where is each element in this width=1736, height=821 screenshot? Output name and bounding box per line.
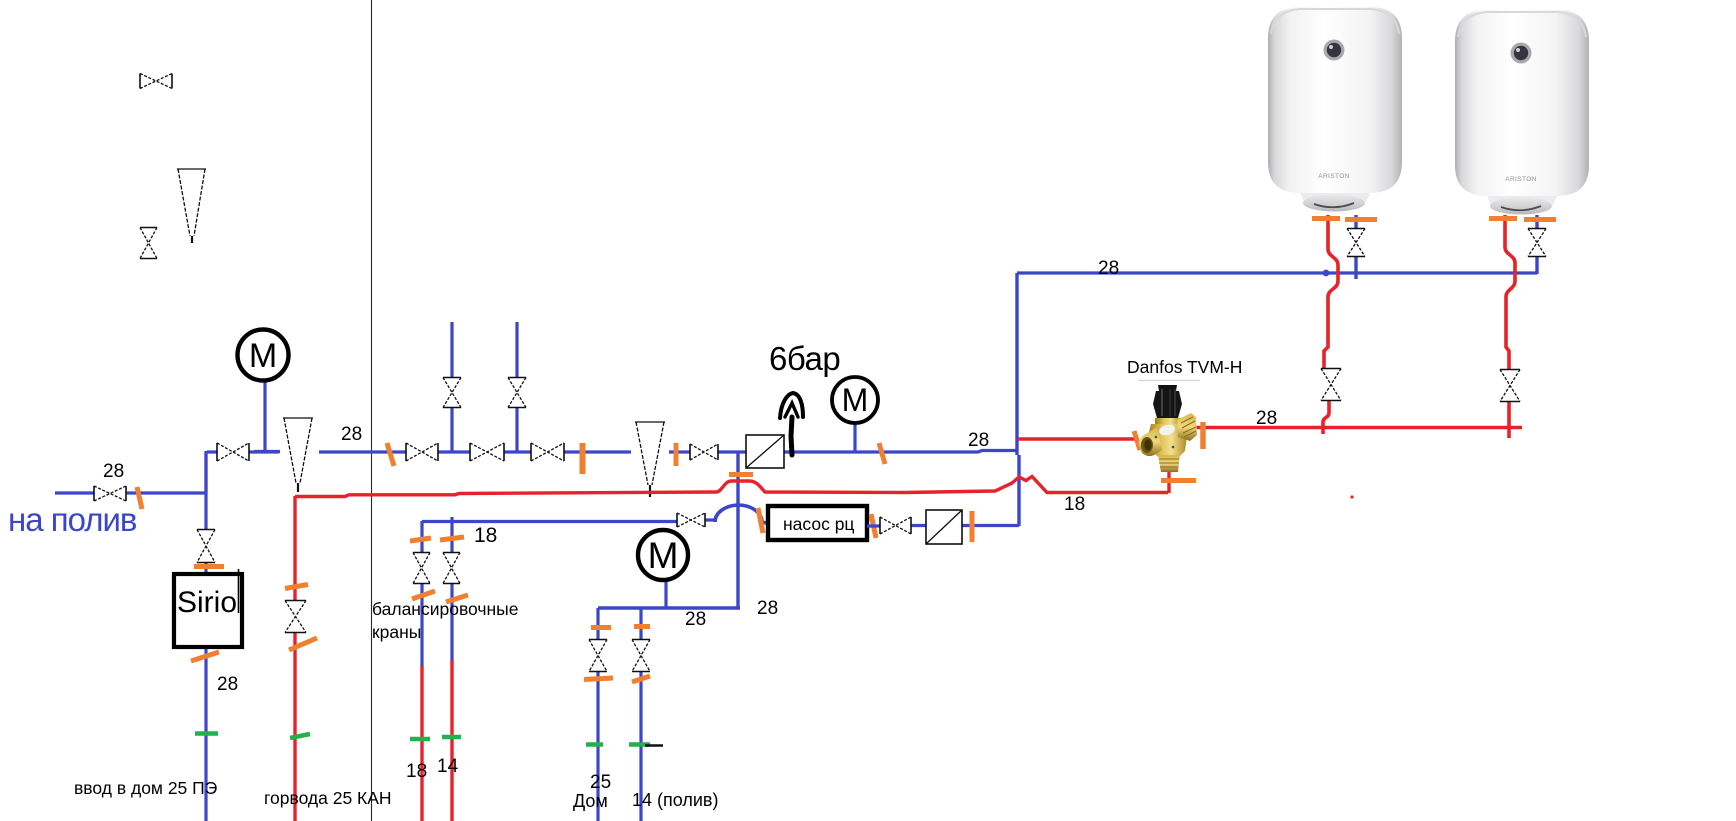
- wire hot from boilers (upper red 2): [1196, 426, 1522, 429]
- wire boiler1 cold drop (blue): [1354, 215, 1357, 279]
- svg-text:M: M: [648, 535, 679, 576]
- tick orange boiler1 hot: [1312, 216, 1340, 221]
- svg-text:28: 28: [217, 674, 238, 695]
- tick orange before pump: [758, 508, 763, 533]
- wire stub riser A: [450, 322, 453, 451]
- wire junction riser (blue vertical x1017): [1015, 273, 1018, 455]
- svg-text:28: 28: [1256, 408, 1277, 429]
- svg-text:18: 18: [406, 761, 427, 782]
- tick orange below Sirio: [191, 652, 219, 661]
- svg-text:горвода 25 КАН: горвода 25 КАН: [264, 788, 392, 808]
- tick orange boiler2 cold: [1524, 217, 1556, 222]
- wire house drop 25: [596, 608, 599, 821]
- svg-text:Sirio: Sirio: [177, 586, 237, 619]
- valve V0 spare (top-left bowtie): [140, 74, 172, 89]
- tick orange main c: [674, 443, 679, 466]
- tick orange recirc drop: [729, 472, 753, 477]
- tick orange after pump: [871, 514, 876, 538]
- meter M2 manometer: [832, 377, 878, 452]
- svg-text:6бар: 6бар: [769, 340, 840, 377]
- meter U1 Sirio box: [174, 569, 242, 647]
- valve V12 hourglass garden drop: [632, 640, 650, 672]
- valve V14 bowtie after pump: [880, 517, 911, 534]
- tick orange irrigation: [137, 487, 142, 509]
- tick orange boiler2 hot: [1489, 216, 1517, 221]
- tick green bal2: [442, 735, 461, 740]
- valve V13 bowtie recirc suction: [677, 513, 705, 527]
- wire pump discharge: [867, 524, 1019, 528]
- filter F4 check square pump: [926, 510, 962, 544]
- svg-text:28: 28: [685, 609, 706, 630]
- valve V20 hourglass boiler2 cold: [1528, 229, 1546, 257]
- svg-text:18: 18: [474, 524, 497, 547]
- valve V10 bowtie main: [690, 444, 718, 460]
- mark grey underline: [1138, 380, 1200, 382]
- svg-text:ввод в дом 25 ПЭ: ввод в дом 25 ПЭ: [74, 778, 217, 798]
- svg-text:28: 28: [341, 424, 362, 445]
- svg-text:на полив: на полив: [8, 501, 137, 538]
- svg-text:28: 28: [968, 430, 989, 451]
- svg-text:28: 28: [1098, 258, 1119, 279]
- wire boiler2 cold drop (blue): [1535, 215, 1538, 274]
- valve V18 hourglass boiler1 cold: [1347, 229, 1365, 257]
- wire hot riser city (red vertical): [293, 496, 296, 821]
- node boiler1 cold tee: [1323, 270, 1330, 277]
- wire boiler2 hot drop lower: [1507, 402, 1511, 438]
- valve V4 bowtie main: [217, 443, 249, 461]
- wire mixed out (upper red 1): [1018, 437, 1136, 440]
- valve V7 bowtie main: [470, 443, 504, 461]
- svg-text:25: 25: [590, 772, 611, 793]
- svg-text:балансировочные: балансировочные: [372, 599, 519, 619]
- svg-text:краны: краны: [372, 622, 421, 642]
- wire balancing drop 2: [450, 517, 453, 661]
- tick orange bal1 lower: [412, 591, 435, 599]
- wire mixer cold stub: [1167, 464, 1170, 493]
- tick orange bal1 upper: [410, 538, 431, 541]
- tick orange after filter: [970, 511, 975, 542]
- tick orange main a: [387, 443, 394, 466]
- tick orange mixer bottom: [1161, 478, 1196, 483]
- valve V9 bowtie main: [531, 443, 564, 461]
- wire boiler2 hot drop (red): [1505, 215, 1515, 369]
- wire cold main header (blue): [206, 451, 1017, 494]
- valve V11 hourglass house drop: [589, 640, 607, 672]
- valve V19 hourglass boiler2 hot: [1500, 370, 1520, 402]
- mark black garden drop: [645, 744, 663, 746]
- wire stub riser B: [515, 322, 518, 451]
- meter M3 garden meter: [638, 530, 688, 608]
- valve V8 hourglass stub B: [508, 378, 526, 408]
- filter F0 spare (top-left cone): [177, 169, 206, 243]
- wire balancing header 18: [422, 520, 715, 522]
- arrow hand drawn pressure: [780, 393, 803, 455]
- wire balancing drop 1 red part: [420, 666, 423, 821]
- filter F3 check square main: [746, 435, 784, 468]
- valve V17 hourglass boiler1 hot: [1321, 369, 1341, 401]
- filter F1 cone main: [283, 418, 313, 492]
- tick orange garden drop upper: [634, 624, 650, 629]
- tick green garden drop: [629, 742, 650, 747]
- wire house inlet below Sirio: [204, 649, 207, 821]
- filter F2 cone main: [635, 422, 665, 497]
- tick orange bal2 lower: [446, 595, 468, 602]
- wire crossing arc recirc: [715, 505, 766, 523]
- svg-text:M: M: [249, 337, 277, 375]
- pump P1 nasos rc box: [768, 506, 867, 540]
- wire garden drop 14: [639, 608, 642, 821]
- tick orange hot riser lower: [289, 638, 317, 650]
- svg-text:Danfos TVM-H: Danfos TVM-H: [1127, 357, 1242, 377]
- valve V16 hourglass bal2: [443, 553, 460, 584]
- svg-text:14 (полив): 14 (полив): [632, 790, 719, 810]
- frame separator line: [371, 0, 373, 821]
- valve V2 hourglass above Sirio: [197, 530, 215, 563]
- valve V15 hourglass bal1: [413, 553, 430, 584]
- wire balancing drop 1: [420, 521, 423, 667]
- wire cold riser to Sirio: [204, 451, 207, 573]
- tick orange house drop upper: [591, 625, 611, 630]
- tick orange main b: [580, 443, 586, 474]
- wire M3 header: [598, 606, 740, 609]
- tick green hot riser: [290, 734, 310, 738]
- tick orange main d: [879, 443, 885, 464]
- tick green bal1: [410, 737, 430, 742]
- tick orange mixer left: [1134, 431, 1140, 450]
- wire balancing drop 2 red part: [450, 660, 453, 821]
- wire boiler1 hot drop lower: [1323, 401, 1329, 434]
- svg-text:Дом: Дом: [573, 791, 608, 811]
- wire irrigation branch (blue): [55, 491, 206, 494]
- tick green house inlet: [195, 731, 218, 736]
- wire pump discharge riser: [1017, 455, 1020, 526]
- mark red mixer stub: [1162, 468, 1177, 471]
- svg-text:28: 28: [757, 598, 778, 619]
- valve V0b spare (top-left hourglass): [140, 228, 157, 259]
- tick green house drop: [586, 742, 603, 747]
- tick orange boiler1 cold: [1345, 217, 1377, 222]
- meter M1 water meter: [238, 330, 289, 452]
- wire boiler1 hot drop (red): [1324, 215, 1338, 368]
- boiler B2 Ariston: [1455, 10, 1589, 215]
- wire recirc drop x738: [736, 453, 739, 607]
- svg-text:насос рц: насос рц: [783, 514, 854, 534]
- tick orange house drop lower: [584, 678, 613, 680]
- valve V3 hourglass hot riser: [285, 601, 306, 633]
- svg-text:M: M: [842, 382, 869, 418]
- boiler B1 Ariston: [1268, 7, 1402, 212]
- tick orange above Sirio box: [194, 564, 224, 569]
- tick orange mixer right: [1200, 422, 1206, 449]
- valve V1 irrigation bowtie: [94, 486, 126, 501]
- svg-text:14: 14: [437, 756, 459, 777]
- svg-text:28: 28: [103, 461, 124, 482]
- valve V6 hourglass stub A: [443, 378, 461, 408]
- wire hot return main (lower red): [295, 477, 1168, 497]
- tick orange hot riser upper: [285, 585, 308, 589]
- svg-text:18: 18: [1064, 494, 1085, 515]
- tick orange garden drop lower: [632, 676, 650, 682]
- mixing valve U2 Danfos TVM-H: [1139, 385, 1197, 472]
- tick orange bal2 upper: [440, 537, 464, 540]
- node stray red dot: [1350, 495, 1353, 498]
- wire cold feed to boilers (top blue header): [1017, 271, 1537, 274]
- svg-text:ARISTON: ARISTON: [1318, 173, 1350, 180]
- valve V5 bowtie main: [406, 443, 438, 461]
